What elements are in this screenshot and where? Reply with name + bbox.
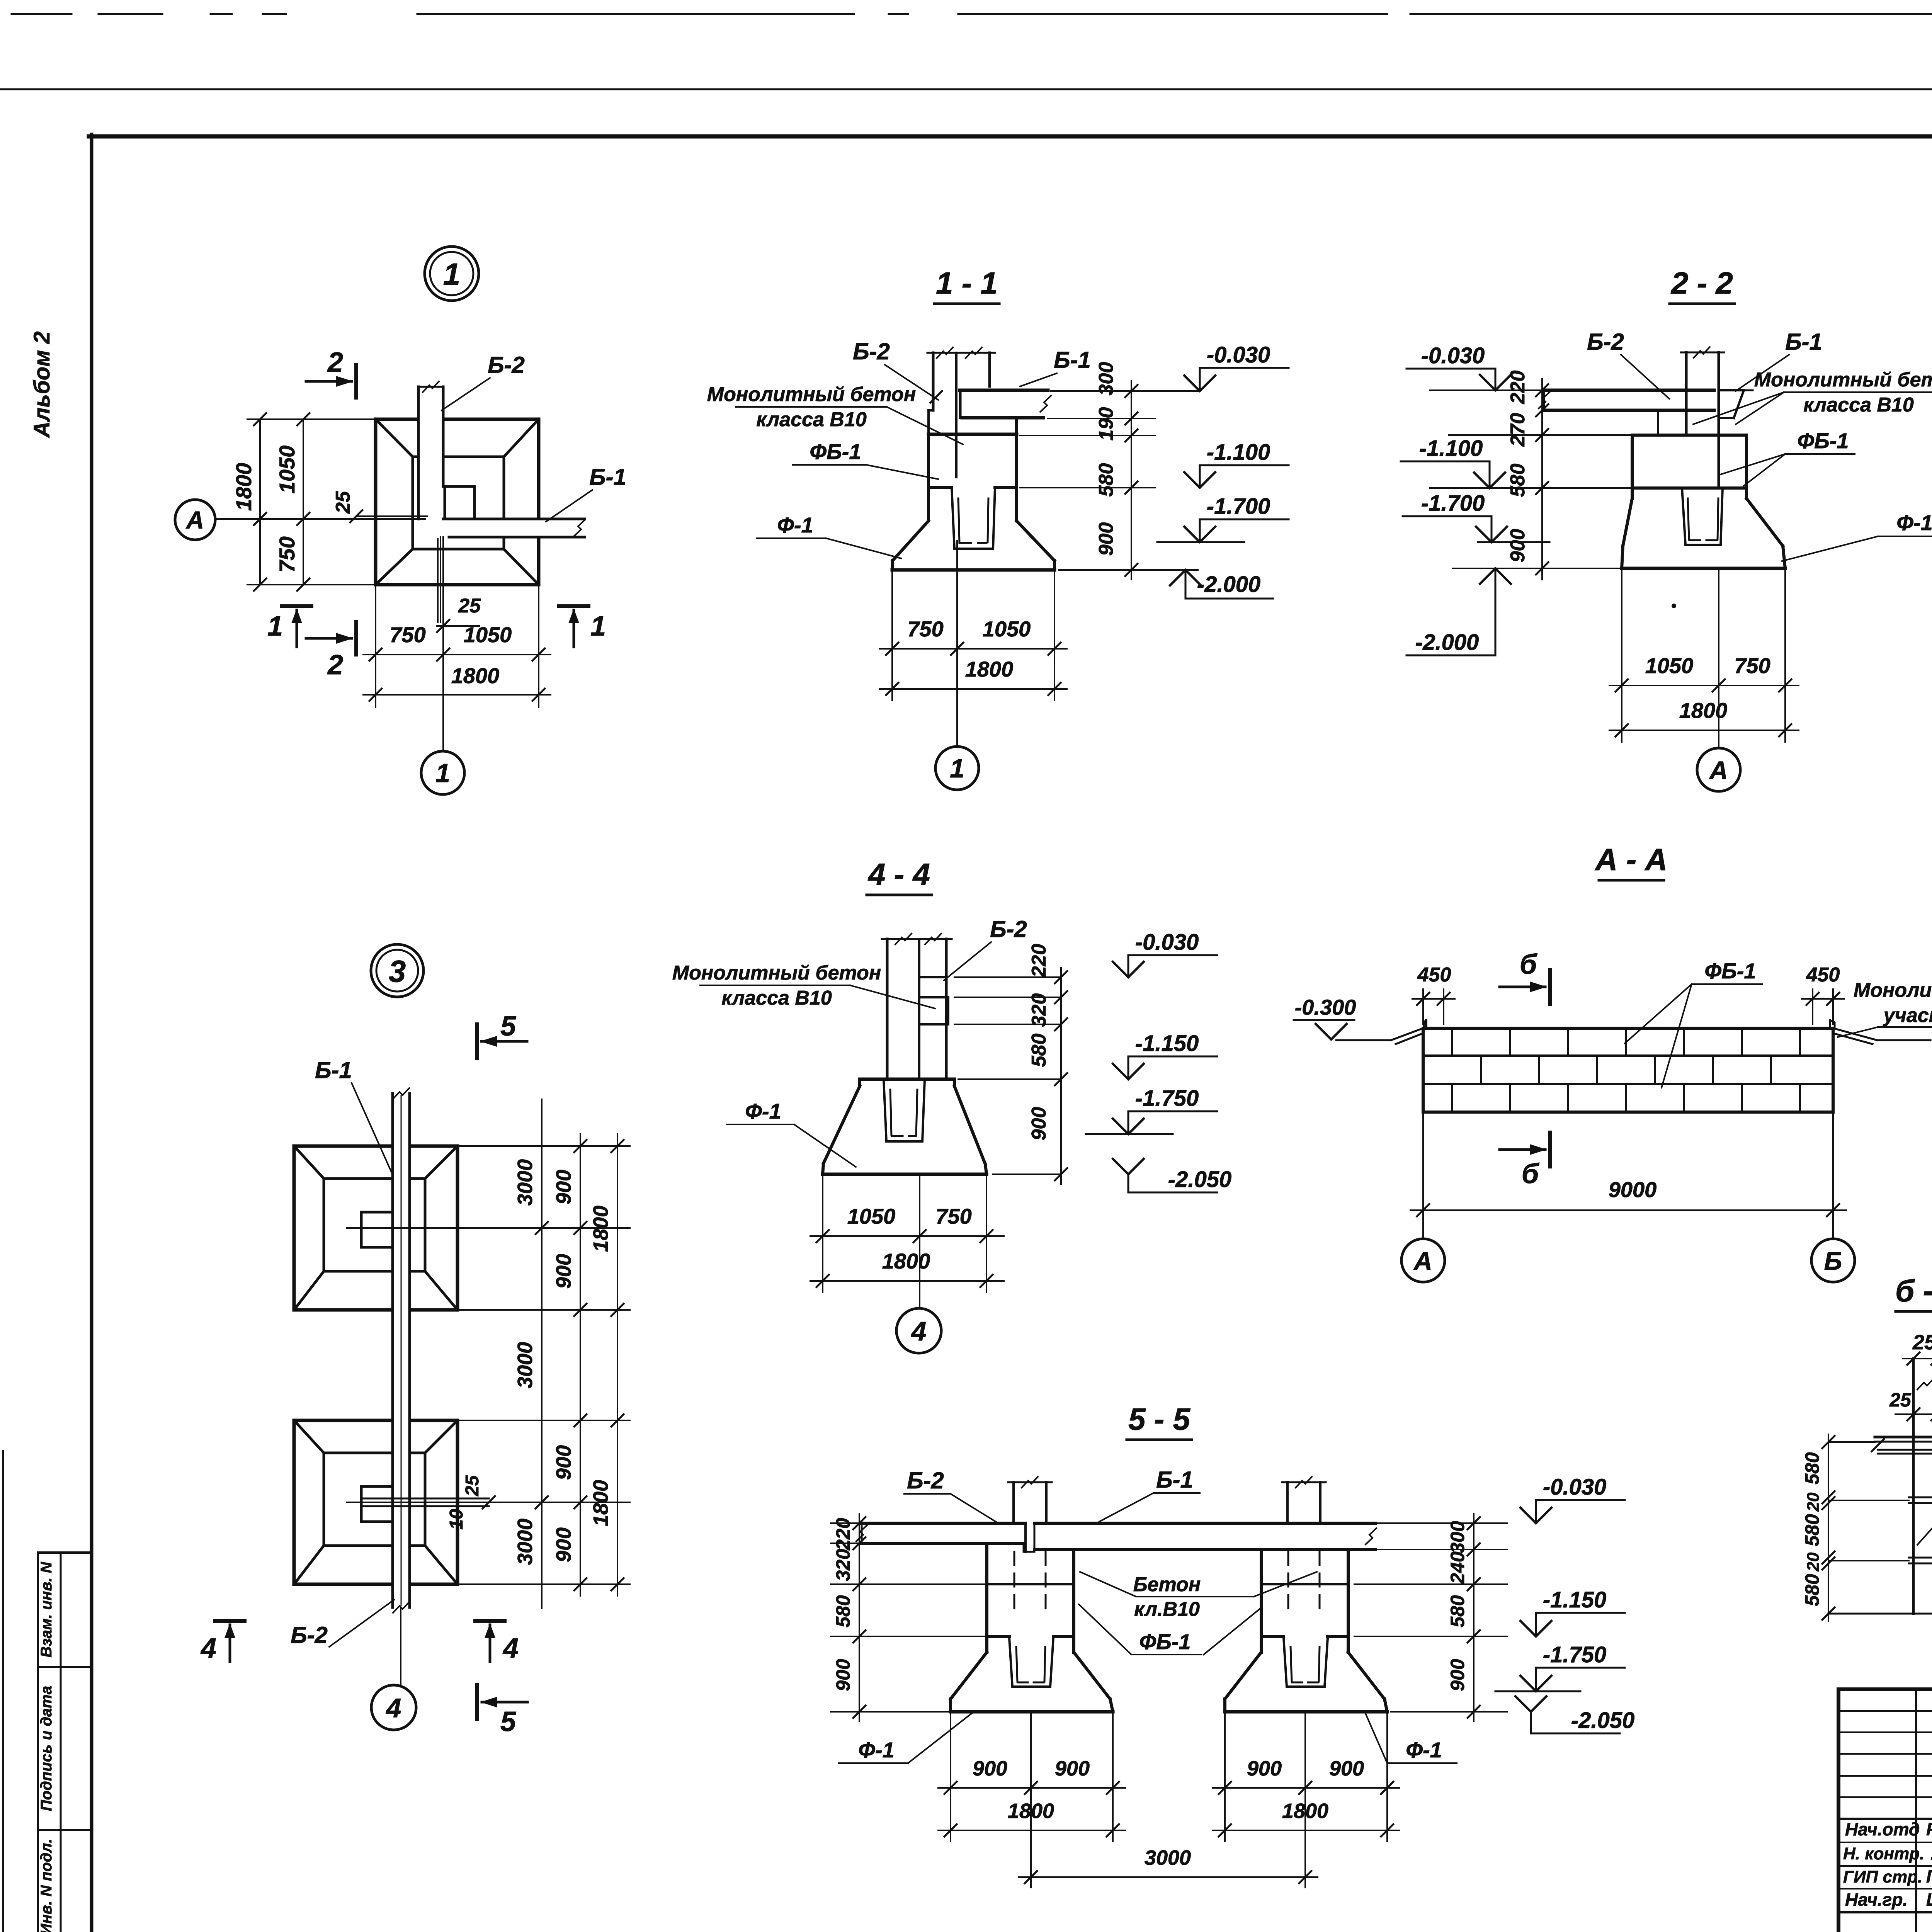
svg-text:1050: 1050 xyxy=(275,446,299,494)
svg-text:5 - 5: 5 - 5 xyxy=(1128,1402,1191,1436)
s44 axis line xyxy=(919,1174,920,1308)
svg-text:Ф-1: Ф-1 xyxy=(1896,510,1932,535)
s44 axis circle 4 xyxy=(896,1308,941,1353)
svg-text:450: 450 xyxy=(1806,964,1840,986)
svg-text:-1.700: -1.700 xyxy=(1207,494,1270,519)
svg-text:Монолитный бетон: Монолитный бетон xyxy=(707,383,916,406)
s11 pedestal FB-1 xyxy=(929,433,1017,436)
node 1 left dim 1050 750 xyxy=(303,419,304,585)
s22 ext lines xyxy=(1621,568,1622,742)
svg-text:Роменский: Роменский xyxy=(1926,1819,1932,1839)
node 3 beam white mask xyxy=(393,1094,410,1607)
svg-text:4: 4 xyxy=(502,1633,519,1664)
svg-text:А: А xyxy=(185,506,204,534)
bb column xyxy=(1912,1359,1915,1614)
svg-text:Б-1: Б-1 xyxy=(1785,329,1822,355)
svg-text:3000: 3000 xyxy=(1145,1846,1191,1869)
s55 beam junction step xyxy=(1024,1523,1027,1552)
s55 ext lines xyxy=(950,1712,951,1841)
scan edge dashes top xyxy=(12,13,71,15)
side box Podpis i data xyxy=(38,1667,92,1830)
svg-text:ФБ-1: ФБ-1 xyxy=(810,439,861,464)
svg-text:1800: 1800 xyxy=(589,1480,612,1526)
s55 socket right xyxy=(1284,1638,1328,1687)
svg-text:270: 270 xyxy=(1507,413,1529,447)
svg-text:Б-2: Б-2 xyxy=(1587,329,1624,355)
s22 level lines left xyxy=(1430,389,1544,391)
s55 columns above left xyxy=(1012,1482,1015,1523)
node 1 left dim 1800 xyxy=(259,419,261,585)
A-A marker b lower xyxy=(1548,1133,1552,1167)
svg-text:900: 900 xyxy=(1247,1757,1282,1780)
svg-text:900: 900 xyxy=(1028,1107,1050,1141)
svg-text:1800: 1800 xyxy=(965,657,1014,681)
svg-text:б: б xyxy=(1522,1158,1540,1189)
node 3 beam B-1 vertical xyxy=(391,1094,394,1607)
svg-text:-2.050: -2.050 xyxy=(1571,1708,1634,1733)
svg-text:1800: 1800 xyxy=(451,663,500,688)
s11 column break slash xyxy=(930,391,942,403)
left outer sheet edge xyxy=(2,1451,4,1932)
frame top thick line xyxy=(89,134,1932,139)
s44 footing F-1 xyxy=(858,1079,861,1086)
s55 dim chain left xyxy=(859,1514,860,1721)
svg-text:Нач.гр.: Нач.гр. xyxy=(1845,1889,1908,1910)
svg-text:Шленова: Шленова xyxy=(1926,1889,1932,1910)
svg-text:900: 900 xyxy=(552,1445,575,1480)
svg-text:220: 220 xyxy=(1028,944,1050,978)
svg-text:Монолитный бетон: Монолитный бетон xyxy=(1754,369,1932,391)
svg-text:900: 900 xyxy=(552,1254,575,1289)
A-A corner stubs xyxy=(1425,1020,1427,1028)
svg-text:-2.000: -2.000 xyxy=(1197,572,1260,597)
svg-text:-2.000: -2.000 xyxy=(1415,630,1479,655)
svg-text:Нач.отд: Нач.отд xyxy=(1845,1819,1920,1839)
node 1 axis horizontal xyxy=(216,518,425,520)
svg-text:1800: 1800 xyxy=(1679,698,1728,723)
bb block joint 2 xyxy=(1909,1557,1932,1559)
svg-text:-1.750: -1.750 xyxy=(1543,1642,1606,1667)
svg-text:Б-2: Б-2 xyxy=(488,352,525,378)
A-A dim 9000 xyxy=(1410,1209,1846,1211)
svg-text:580: 580 xyxy=(832,1595,854,1628)
svg-text:Парфенов: Парфенов xyxy=(1926,1866,1932,1886)
svg-text:1: 1 xyxy=(590,611,606,642)
node 1 bottom dim 1800 xyxy=(363,694,551,696)
svg-text:580: 580 xyxy=(1507,464,1529,497)
svg-text:-1.700: -1.700 xyxy=(1421,491,1485,516)
s11 axis circle xyxy=(935,747,979,790)
svg-text:4: 4 xyxy=(386,1693,401,1723)
svg-text:320: 320 xyxy=(1028,993,1050,1027)
s55 beam B-2 left xyxy=(862,1522,1026,1525)
node 3 square 2 step rect xyxy=(361,1486,393,1522)
svg-text:1: 1 xyxy=(950,754,964,783)
s44 column xyxy=(886,939,889,1079)
svg-text:Ф-1: Ф-1 xyxy=(745,1099,781,1123)
node 3 axis line square2 xyxy=(347,1502,630,1503)
s11 socket xyxy=(952,488,995,549)
s22 beam B-2 wide xyxy=(1544,389,1714,392)
svg-text:320: 320 xyxy=(832,1549,854,1581)
svg-text:Подпись и дата: Подпись и дата xyxy=(38,1686,55,1811)
A-A dim 450 left xyxy=(1422,989,1424,1024)
section mark 2 top xyxy=(354,365,358,398)
s55 columns above right xyxy=(1286,1482,1289,1523)
node 1 beam B-1 white mask xyxy=(443,519,585,537)
s44 ext lines xyxy=(822,1174,823,1293)
svg-text:1: 1 xyxy=(435,759,450,788)
svg-text:-0.300: -0.300 xyxy=(1295,995,1356,1019)
node 3 marker circle xyxy=(371,944,423,997)
s44 bottom dims xyxy=(810,1235,1004,1237)
svg-text:1: 1 xyxy=(267,611,283,642)
svg-text:5: 5 xyxy=(500,1011,516,1042)
title block outline xyxy=(1838,1689,1932,1932)
svg-text:750: 750 xyxy=(935,1204,971,1228)
svg-text:Н. контр.: Н. контр. xyxy=(1843,1844,1924,1863)
svg-text:20: 20 xyxy=(1804,1492,1823,1512)
s44 socket xyxy=(884,1080,925,1141)
bb block joint 1 xyxy=(1909,1497,1932,1498)
svg-text:1: 1 xyxy=(443,257,461,291)
node 3 dim chain 3000 xyxy=(541,1099,543,1608)
svg-text:Бетон: Бетон xyxy=(1133,1573,1201,1596)
node 3 square 1 pyramid edges xyxy=(294,1146,324,1179)
svg-text:ФБ-1: ФБ-1 xyxy=(1797,429,1849,453)
svg-text:580: 580 xyxy=(1028,1034,1050,1067)
s11 bottom dims xyxy=(880,648,1067,650)
s11 level lines right xyxy=(1051,390,1198,392)
node 1 beam B-2 vertical xyxy=(417,387,420,519)
s11 beam B-1 xyxy=(960,389,1048,392)
bb level line top xyxy=(1828,1441,1875,1443)
svg-text:900: 900 xyxy=(832,1659,854,1691)
A-A ground line left xyxy=(1336,1039,1391,1041)
svg-text:25: 25 xyxy=(462,1475,483,1497)
svg-text:750: 750 xyxy=(389,622,425,647)
s55 pedestal left xyxy=(985,1543,988,1636)
svg-text:900: 900 xyxy=(552,1170,575,1204)
svg-text:-0.030: -0.030 xyxy=(1421,343,1485,368)
s22 axis line xyxy=(1718,568,1719,748)
node 1 inner square xyxy=(413,457,504,549)
svg-text:900: 900 xyxy=(1447,1659,1468,1691)
A-A block joints row2 xyxy=(1480,1056,1482,1084)
frame left border xyxy=(90,134,94,1932)
s11 column B-2 xyxy=(932,353,935,410)
header strip top line xyxy=(0,88,1932,90)
svg-text:1050: 1050 xyxy=(983,617,1031,641)
svg-text:20: 20 xyxy=(1804,1552,1823,1571)
svg-text:-1.100: -1.100 xyxy=(1419,436,1483,461)
s55 level lines left xyxy=(831,1522,862,1524)
svg-text:3: 3 xyxy=(389,954,406,988)
svg-text:900: 900 xyxy=(1055,1757,1090,1780)
s22 dim chain xyxy=(1541,379,1543,580)
bb bottom line xyxy=(1828,1613,1932,1615)
node 3 ext lines right xyxy=(460,1145,630,1147)
svg-text:Б-1: Б-1 xyxy=(315,1057,352,1083)
svg-text:300: 300 xyxy=(1447,1521,1468,1553)
node 1 marker circle xyxy=(425,247,479,301)
svg-text:1800: 1800 xyxy=(882,1249,930,1273)
svg-text:450: 450 xyxy=(1417,964,1451,986)
svg-text:А: А xyxy=(1709,756,1728,784)
s55 beam B-1 long xyxy=(1034,1522,1376,1525)
A-A wall side ext lines xyxy=(1422,1112,1424,1217)
s55 pedestal left dashed columns xyxy=(1014,1552,1015,1611)
svg-text:750: 750 xyxy=(907,617,943,641)
svg-text:-1.150: -1.150 xyxy=(1135,1031,1199,1056)
node 3 axis circle 4 xyxy=(400,1607,401,1685)
A-A marker b upper xyxy=(1548,970,1552,1004)
svg-text:А - А: А - А xyxy=(1595,842,1668,877)
s44 step 220 line xyxy=(921,976,946,978)
svg-text:участок: участок xyxy=(1883,1004,1932,1027)
node 1 pyramid edges xyxy=(376,419,413,457)
svg-text:580: 580 xyxy=(1801,1452,1823,1485)
svg-text:4 - 4: 4 - 4 xyxy=(867,857,930,891)
svg-text:10: 10 xyxy=(446,1509,467,1530)
svg-text:класса В10: класса В10 xyxy=(1803,394,1914,416)
svg-text:А: А xyxy=(1413,1247,1432,1275)
node 3 square 2 pyramid edges xyxy=(294,1420,324,1453)
svg-text:-1.150: -1.150 xyxy=(1543,1587,1606,1612)
s44 level lines right xyxy=(954,976,1061,978)
A-A ground line right xyxy=(1833,1028,1877,1040)
svg-text:Инв. N подл.: Инв. N подл. xyxy=(38,1839,55,1932)
s55 socket left xyxy=(1009,1638,1053,1687)
s22 stray dot xyxy=(1672,604,1676,608)
s55 pedestal right xyxy=(1260,1549,1263,1636)
node 3 section mark 4 left xyxy=(215,1619,245,1623)
svg-text:2: 2 xyxy=(327,650,343,680)
svg-text:900: 900 xyxy=(552,1527,575,1562)
node 3 section mark 5 top xyxy=(475,1024,479,1058)
title block signature table columns xyxy=(1915,1689,1917,1932)
svg-text:Б-1: Б-1 xyxy=(589,464,626,490)
svg-text:25: 25 xyxy=(1889,1389,1912,1411)
s55 footing left xyxy=(985,1636,988,1652)
svg-text:Б-2: Б-2 xyxy=(853,338,890,364)
s11 footing F-1 xyxy=(927,488,930,521)
node 1 beam B-2 white mask xyxy=(418,387,443,519)
svg-text:2 - 2: 2 - 2 xyxy=(1670,266,1733,300)
node 3 section mark 5 bottom xyxy=(475,1685,479,1719)
node 3 square 2 xyxy=(294,1420,457,1584)
svg-text:кл.В10: кл.В10 xyxy=(1134,1598,1200,1621)
svg-text:Монолитный бетон: Монолитный бетон xyxy=(672,962,881,984)
s11 dim chain xyxy=(1131,381,1132,580)
side box Inv N podl xyxy=(38,1830,92,1932)
s22 column B-1 verticals xyxy=(1685,352,1688,433)
svg-text:Ф-1: Ф-1 xyxy=(777,513,813,537)
s55 level lines right xyxy=(1376,1522,1507,1524)
svg-text:Б-2: Б-2 xyxy=(291,1622,328,1648)
node 3 dim chain 1800 xyxy=(617,1134,618,1596)
svg-text:750: 750 xyxy=(275,536,299,572)
svg-text:Монолитный: Монолитный xyxy=(1854,979,1932,1002)
svg-text:1800: 1800 xyxy=(231,463,256,511)
svg-text:1050: 1050 xyxy=(1645,653,1694,678)
s55 dim 3000 xyxy=(1019,1876,1318,1878)
s44 monolith rect xyxy=(921,996,948,998)
svg-text:580: 580 xyxy=(1447,1595,1468,1628)
svg-text:-2.050: -2.050 xyxy=(1168,1167,1231,1192)
A-A wall outline xyxy=(1423,1028,1833,1112)
svg-text:5: 5 xyxy=(500,1706,516,1737)
node 1 bottom ext lines xyxy=(375,585,376,707)
svg-text:3000: 3000 xyxy=(514,1159,537,1206)
svg-text:190: 190 xyxy=(1095,407,1117,441)
A-A dim 450 right xyxy=(1812,989,1813,1024)
svg-text:Взам. инв. N: Взам. инв. N xyxy=(38,1561,55,1657)
node 3 square 1 inner xyxy=(324,1179,425,1271)
svg-text:300: 300 xyxy=(1095,362,1117,396)
section mark 1 left xyxy=(282,604,311,608)
svg-text:4: 4 xyxy=(200,1633,216,1664)
svg-text:1050: 1050 xyxy=(464,622,512,647)
A-A axis circles xyxy=(1422,1210,1424,1238)
svg-text:Ф-1: Ф-1 xyxy=(858,1738,895,1762)
node 3 square 1 xyxy=(294,1146,457,1310)
svg-text:4: 4 xyxy=(911,1316,927,1346)
svg-text:240: 240 xyxy=(1447,1551,1468,1584)
svg-text:3000: 3000 xyxy=(514,1342,537,1388)
svg-text:1 - 1: 1 - 1 xyxy=(936,266,998,300)
s55 pedestal right dashed columns xyxy=(1287,1552,1289,1611)
svg-text:Б-2: Б-2 xyxy=(907,1468,944,1493)
svg-text:3000: 3000 xyxy=(514,1519,537,1565)
svg-text:Ф-1: Ф-1 xyxy=(1406,1738,1442,1762)
s11 axis line xyxy=(956,541,958,747)
svg-text:-0.030: -0.030 xyxy=(1135,930,1199,955)
svg-text:900: 900 xyxy=(973,1757,1007,1780)
s22 footing F-1 xyxy=(1631,488,1634,498)
bb top flange xyxy=(1875,1436,1932,1439)
svg-text:ФБ-1: ФБ-1 xyxy=(1139,1629,1190,1654)
node 3 axis line square1 xyxy=(347,1227,630,1229)
section mark 1 right xyxy=(559,604,588,608)
svg-text:900: 900 xyxy=(1507,529,1529,563)
s22 pedestal FB-1 xyxy=(1632,435,1747,488)
section mark 2 bottom xyxy=(354,622,358,655)
axis A circle xyxy=(175,500,215,540)
svg-text:-0.030: -0.030 xyxy=(1543,1475,1606,1500)
s22 bottom dims xyxy=(1609,685,1799,686)
node 1 bottom dim 750 1050 xyxy=(363,654,551,655)
s22 socket xyxy=(1682,488,1723,545)
svg-text:Б-1: Б-1 xyxy=(1054,347,1091,373)
bb left dim chain xyxy=(1828,1434,1829,1621)
node 3 dim chain 900 xyxy=(580,1134,581,1596)
s11 ext lines xyxy=(891,570,893,700)
svg-text:580: 580 xyxy=(1801,1574,1823,1606)
svg-text:900: 900 xyxy=(1329,1757,1364,1780)
node 3 square 2 inner xyxy=(324,1453,425,1546)
svg-text:б - б: б - б xyxy=(1895,1274,1932,1308)
s11 monolith step xyxy=(929,410,933,434)
node 1 axis vertical xyxy=(442,537,444,750)
svg-text:класса В10: класса В10 xyxy=(756,408,867,431)
side box Vzam inv N xyxy=(38,1553,92,1667)
svg-text:б: б xyxy=(1520,949,1538,980)
s55 dim chain right xyxy=(1473,1514,1475,1721)
node 1 axis circle 1 bottom xyxy=(421,751,464,794)
svg-text:Альбом 2: Альбом 2 xyxy=(29,331,54,438)
svg-text:25: 25 xyxy=(332,491,354,514)
svg-text:Б: Б xyxy=(1824,1247,1842,1275)
bb joint ext lines xyxy=(1828,1500,1909,1501)
node 1 dim ext lines left xyxy=(247,418,379,420)
s22 axis circle A xyxy=(1697,748,1740,791)
svg-text:1800: 1800 xyxy=(589,1206,612,1252)
svg-text:580: 580 xyxy=(1801,1514,1823,1546)
A-A block joints row1 xyxy=(1451,1028,1453,1056)
title block signature rows xyxy=(1838,1710,1932,1712)
svg-text:1050: 1050 xyxy=(847,1204,896,1228)
svg-text:9000: 9000 xyxy=(1609,1177,1657,1202)
svg-text:-1.750: -1.750 xyxy=(1135,1086,1199,1111)
s55 bottom dims xyxy=(938,1787,1125,1789)
svg-text:25: 25 xyxy=(458,595,481,617)
node 3 section mark 4 right xyxy=(475,1619,505,1623)
svg-text:-1.100: -1.100 xyxy=(1207,440,1270,465)
svg-text:ГИП стр.: ГИП стр. xyxy=(1843,1867,1922,1886)
A-A wall row lines xyxy=(1423,1054,1833,1057)
node 3 square 1 step rect xyxy=(361,1212,393,1247)
svg-text:ФБ-1: ФБ-1 xyxy=(1704,959,1756,983)
s44 footing top line xyxy=(860,1078,954,1081)
s22 monolith zone xyxy=(1658,410,1714,435)
svg-text:580: 580 xyxy=(1095,463,1117,497)
svg-text:Б-2: Б-2 xyxy=(990,916,1027,942)
node 1 step rect xyxy=(445,486,474,519)
svg-text:-0.030: -0.030 xyxy=(1207,342,1270,367)
svg-text:Б-1: Б-1 xyxy=(1156,1467,1193,1493)
svg-text:250: 250 xyxy=(1912,1331,1932,1354)
node 1 foundation square xyxy=(376,419,539,585)
svg-text:класса В10: класса В10 xyxy=(721,987,832,1009)
svg-text:750: 750 xyxy=(1734,653,1770,678)
s44 dim chain xyxy=(1060,968,1062,1184)
s55 footing right xyxy=(1260,1636,1263,1652)
A-A block joints row3 xyxy=(1451,1084,1453,1112)
s22 beam B-1 right part xyxy=(1719,389,1744,391)
node 3 beam joint lower xyxy=(363,1498,489,1500)
svg-text:2: 2 xyxy=(327,347,343,378)
svg-text:220: 220 xyxy=(832,1518,854,1551)
svg-text:900: 900 xyxy=(1095,522,1117,556)
node 1 beam B-1 horizontal xyxy=(443,518,585,520)
